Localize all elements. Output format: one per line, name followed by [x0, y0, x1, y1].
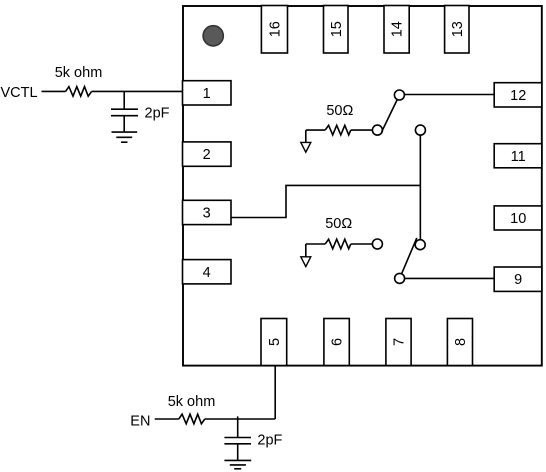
svg-text:16: 16: [268, 21, 284, 37]
svg-text:5k ohm: 5k ohm: [168, 394, 216, 410]
svg-text:10: 10: [510, 211, 526, 227]
svg-text:EN: EN: [130, 413, 150, 429]
svg-text:6: 6: [330, 338, 346, 346]
svg-text:2: 2: [203, 147, 211, 163]
svg-text:VCTL: VCTL: [1, 85, 38, 101]
svg-text:2pF: 2pF: [145, 105, 170, 121]
svg-text:14: 14: [390, 21, 406, 37]
svg-text:13: 13: [450, 21, 466, 37]
svg-text:12: 12: [510, 88, 526, 104]
svg-text:3: 3: [203, 206, 211, 222]
svg-text:8: 8: [453, 338, 469, 346]
svg-text:50Ω: 50Ω: [326, 103, 353, 119]
svg-text:5: 5: [267, 338, 283, 346]
svg-text:5k ohm: 5k ohm: [55, 65, 103, 81]
svg-text:50Ω: 50Ω: [325, 216, 352, 232]
svg-text:4: 4: [203, 265, 211, 281]
svg-text:1: 1: [203, 86, 211, 102]
svg-text:11: 11: [511, 149, 526, 165]
svg-text:7: 7: [392, 338, 408, 346]
svg-text:2pF: 2pF: [257, 432, 282, 448]
svg-text:15: 15: [329, 21, 345, 37]
svg-text:9: 9: [514, 272, 522, 288]
